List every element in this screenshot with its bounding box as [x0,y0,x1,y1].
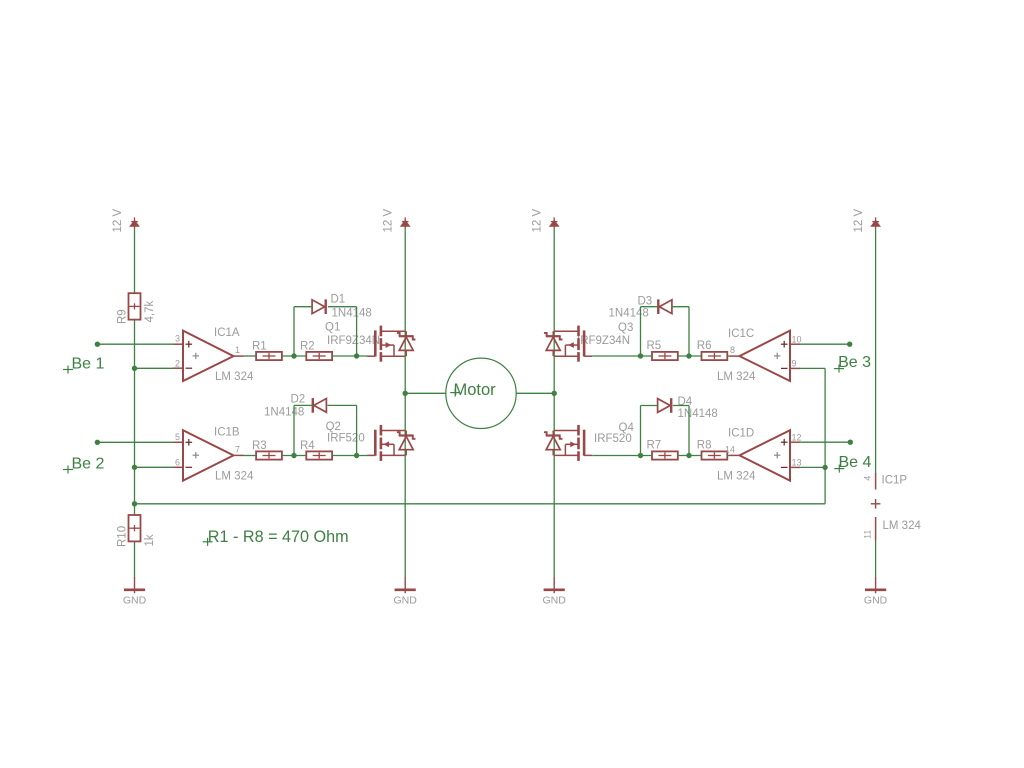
svg-text:IC1A: IC1A [214,327,240,339]
svg-text:IC1D: IC1D [728,428,754,440]
svg-text:Q2: Q2 [326,421,341,433]
svg-text:2: 2 [175,358,180,368]
svg-text:1N4148: 1N4148 [332,308,372,320]
svg-text:3: 3 [175,334,180,344]
svg-text:R3: R3 [252,440,267,452]
svg-text:Be 2: Be 2 [72,455,105,472]
svg-text:1: 1 [235,345,240,355]
svg-text:R9: R9 [117,309,129,324]
svg-text:LM 324: LM 324 [717,371,756,383]
svg-text:GND: GND [543,594,567,606]
svg-text:IC1C: IC1C [728,328,754,340]
svg-text:7: 7 [235,444,240,454]
svg-text:R7: R7 [647,440,662,452]
svg-text:GND: GND [394,594,418,606]
svg-text:1k: 1k [144,534,156,546]
svg-text:GND: GND [123,594,147,606]
svg-text:Q1: Q1 [325,321,340,333]
svg-text:12 V: 12 V [112,209,124,233]
svg-text:LM 324: LM 324 [717,470,756,482]
svg-text:4,7k: 4,7k [144,301,156,323]
svg-text:10: 10 [792,334,802,344]
svg-text:5: 5 [175,432,180,442]
svg-text:LM 324: LM 324 [215,371,254,383]
svg-text:LM 324: LM 324 [215,470,254,482]
svg-text:IRF9Z34N: IRF9Z34N [327,335,380,347]
svg-text:LM 324: LM 324 [883,520,922,532]
svg-text:IC1B: IC1B [214,427,240,439]
svg-text:GND: GND [864,594,888,606]
svg-text:R8: R8 [697,440,712,452]
svg-text:Motor: Motor [454,381,497,399]
svg-text:R5: R5 [647,340,662,352]
svg-text:R6: R6 [697,340,712,352]
svg-text:D1: D1 [331,294,346,306]
svg-text:12 V: 12 V [383,209,395,233]
svg-text:R2: R2 [300,340,315,352]
svg-text:R10: R10 [117,526,129,547]
svg-text:D2: D2 [291,394,306,406]
svg-text:12 V: 12 V [853,209,865,233]
svg-text:4: 4 [863,476,873,481]
svg-text:12: 12 [792,432,802,442]
svg-text:1N4148: 1N4148 [264,406,304,418]
svg-text:IRF520: IRF520 [327,433,365,445]
svg-text:Q3: Q3 [618,322,633,334]
svg-text:11: 11 [863,530,873,539]
svg-text:1N4148: 1N4148 [678,408,718,420]
svg-text:14: 14 [725,444,735,454]
svg-text:IC1P: IC1P [882,475,908,487]
svg-text:D3: D3 [638,295,653,307]
svg-text:Be 1: Be 1 [72,355,105,372]
svg-text:12 V: 12 V [532,209,544,233]
svg-text:R1: R1 [252,340,267,352]
svg-text:13: 13 [792,458,802,468]
svg-text:9: 9 [792,359,797,369]
svg-text:R4: R4 [300,440,315,452]
svg-text:R1 - R8 = 470 Ohm: R1 - R8 = 470 Ohm [208,528,349,546]
svg-text:1N4148: 1N4148 [609,308,649,320]
svg-text:6: 6 [175,457,180,467]
svg-text:IRF520: IRF520 [594,433,632,445]
svg-text:8: 8 [730,345,735,355]
